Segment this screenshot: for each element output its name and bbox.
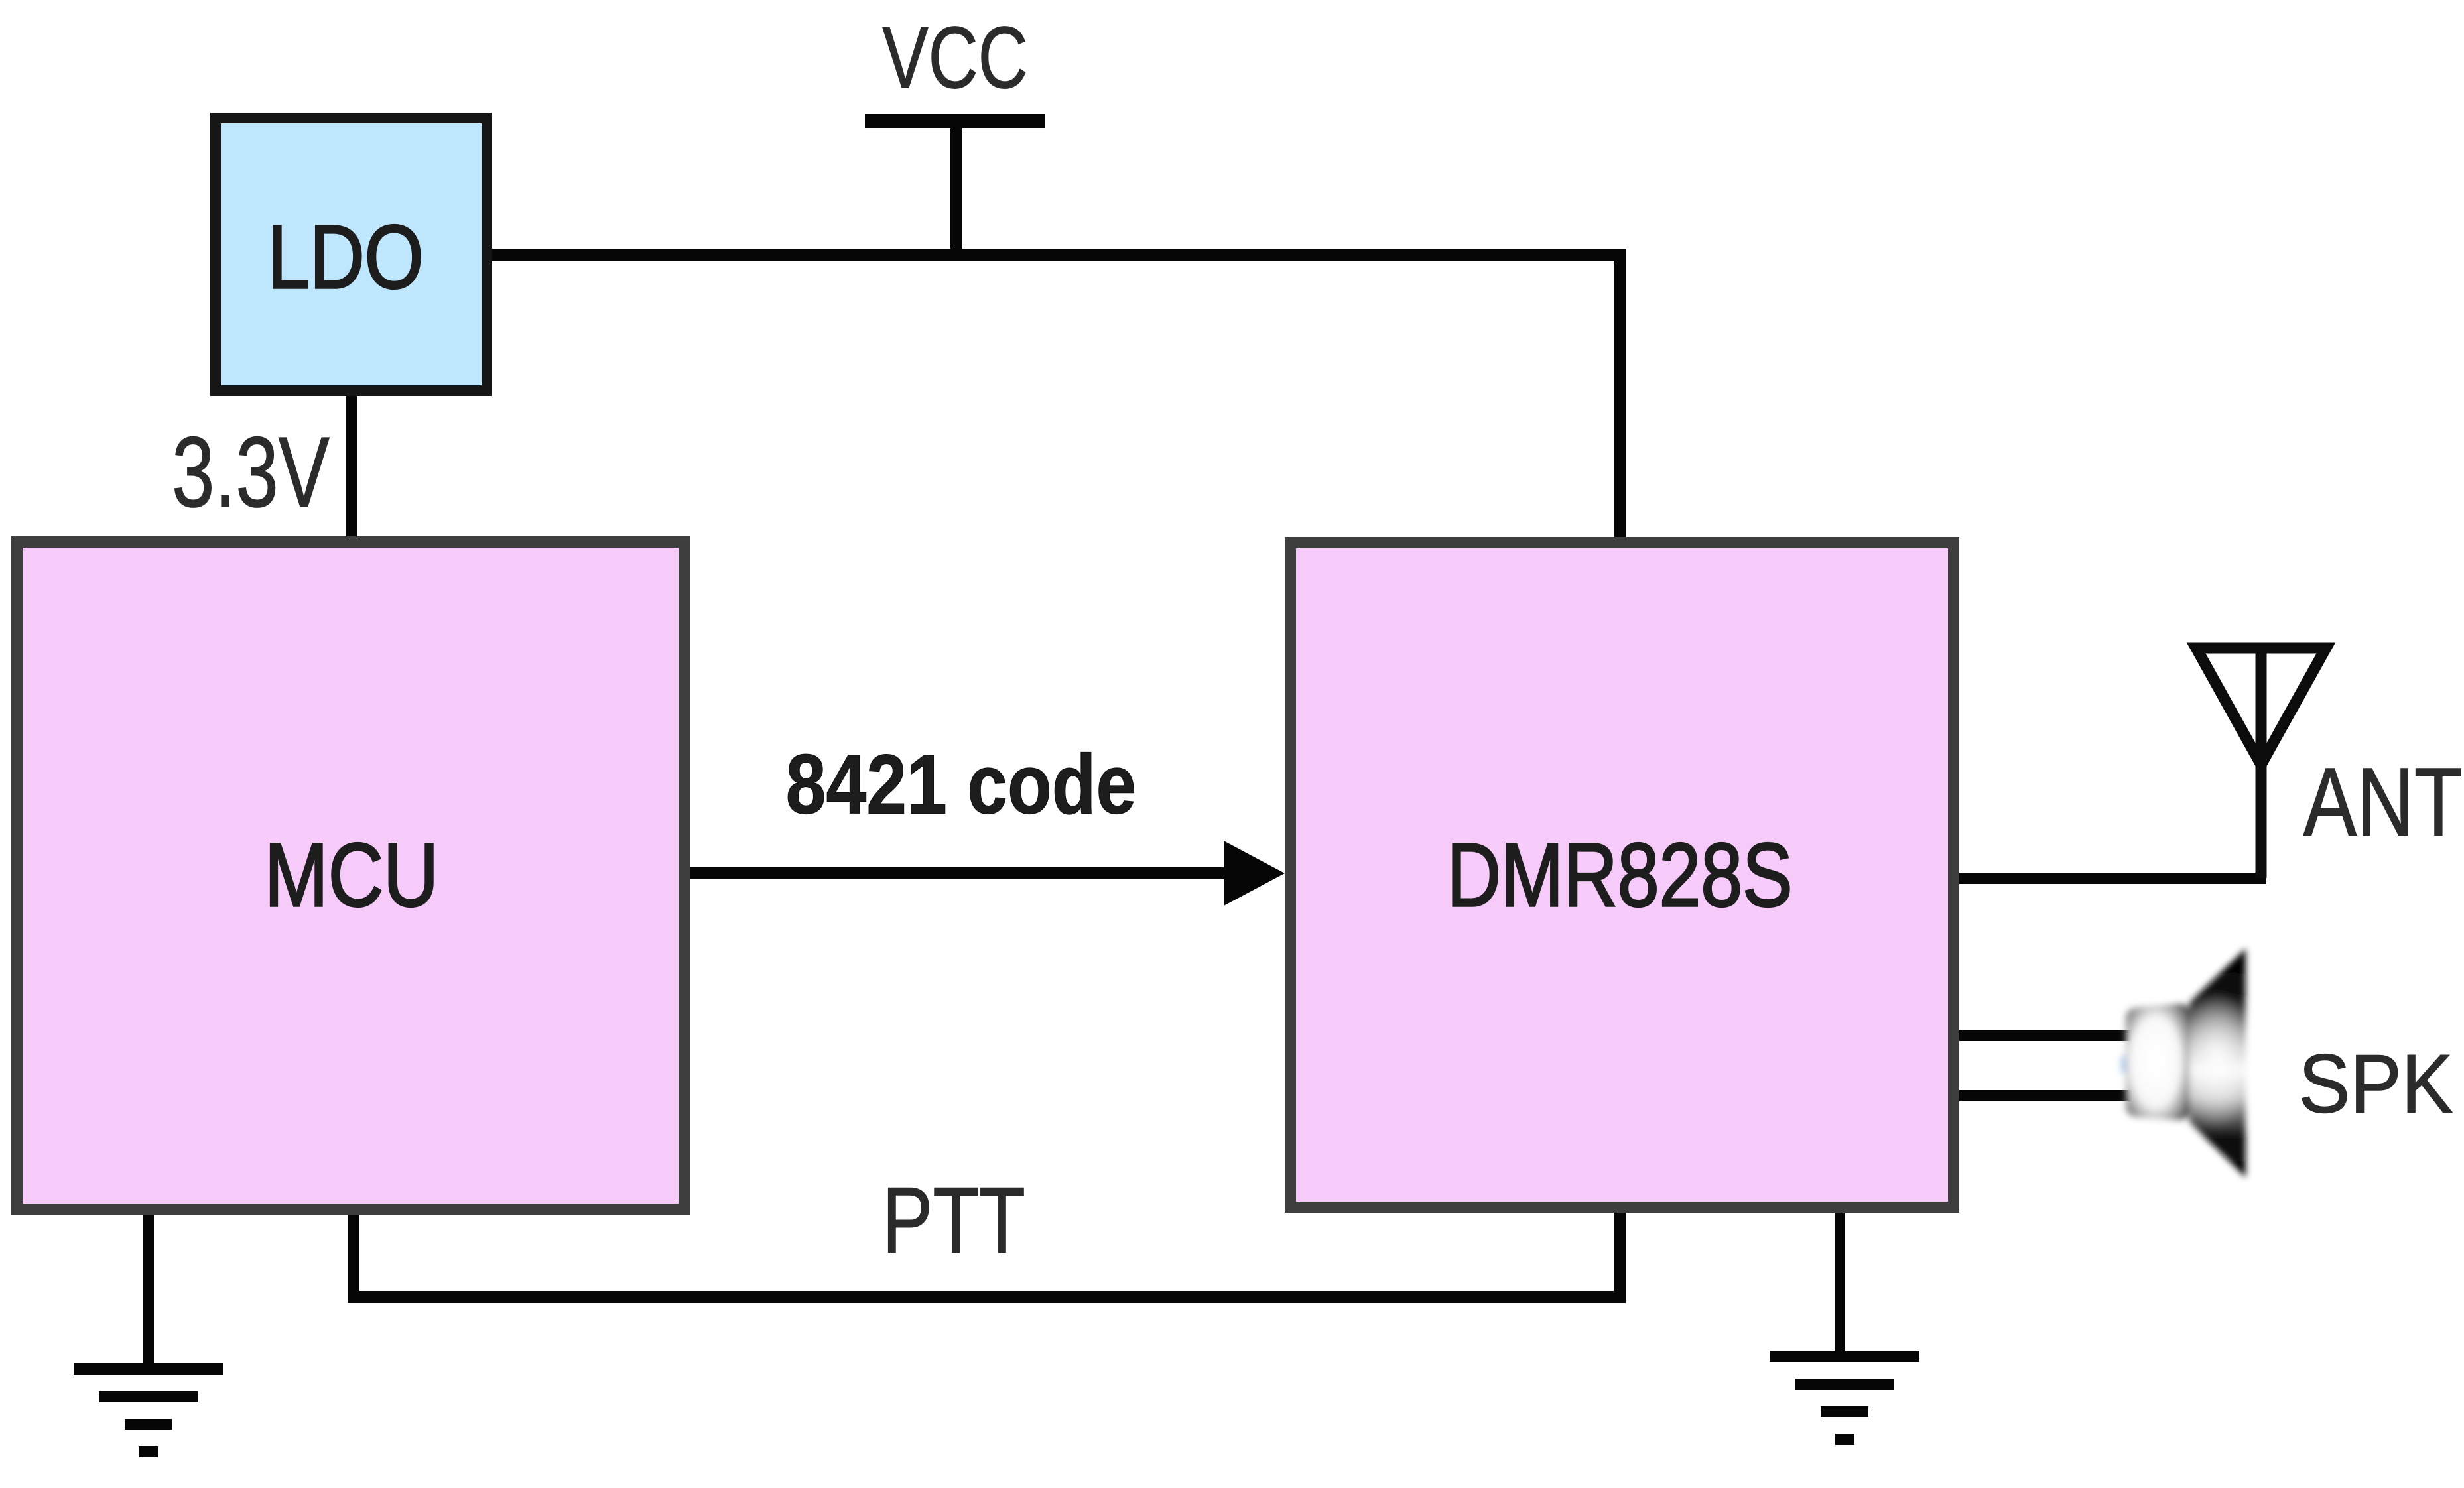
- wire MCU to DMR828S (8421 code arrow shaft): [690, 867, 1227, 879]
- ground symbol left: [74, 1363, 223, 1375]
- LDO block U1: [210, 113, 492, 396]
- LDO label: [267, 212, 424, 302]
- PTT label: [882, 1174, 1025, 1267]
- speaker body: [2126, 1004, 2189, 1120]
- speaker horn highlight: [2178, 990, 2255, 1129]
- VCC stem wire: [950, 128, 962, 249]
- VCC label: [882, 14, 1027, 101]
- wire VCC rail drop to DMR828S top: [1614, 261, 1626, 537]
- wire MCU to ground: [143, 1215, 154, 1363]
- DMR828S block U3: [1285, 537, 1959, 1213]
- VCC power symbol bar: [865, 114, 1045, 128]
- speaker horn: [2189, 948, 2246, 1178]
- antenna symbol: [2196, 647, 2326, 878]
- 8421 code label: [786, 742, 1137, 826]
- MCU block U2: [11, 536, 690, 1215]
- wire DMR828S to speaker lower: [1959, 1090, 2132, 1101]
- wire DMR828S to speaker upper: [1959, 1030, 2132, 1041]
- speaker symbol: [2121, 948, 2255, 1178]
- 3.3V label: [172, 422, 330, 522]
- ground symbol right: [1770, 1351, 1919, 1362]
- ANT label: [2303, 753, 2462, 850]
- wire DMR828S to ground: [1835, 1213, 1845, 1351]
- wire LDO to DMR828S (horizontal VCC rail): [492, 249, 1626, 261]
- DMR828S label: [1447, 830, 1792, 920]
- MCU label: [264, 830, 438, 920]
- arrowhead of 8421 code wire: [1224, 841, 1285, 906]
- speaker blue artifact: [2121, 1056, 2127, 1073]
- wire LDO to MCU (3.3V): [346, 396, 357, 536]
- wire PTT vertical to DMR828S bottom: [1614, 1213, 1626, 1291]
- speaker body highlight: [2128, 1010, 2183, 1109]
- SPK label: [2298, 1042, 2452, 1125]
- wire MCU bottom PTT vertical: [348, 1215, 359, 1291]
- wire DMR828S to antenna: [1959, 873, 2266, 884]
- wire PTT horizontal: [348, 1291, 1626, 1303]
